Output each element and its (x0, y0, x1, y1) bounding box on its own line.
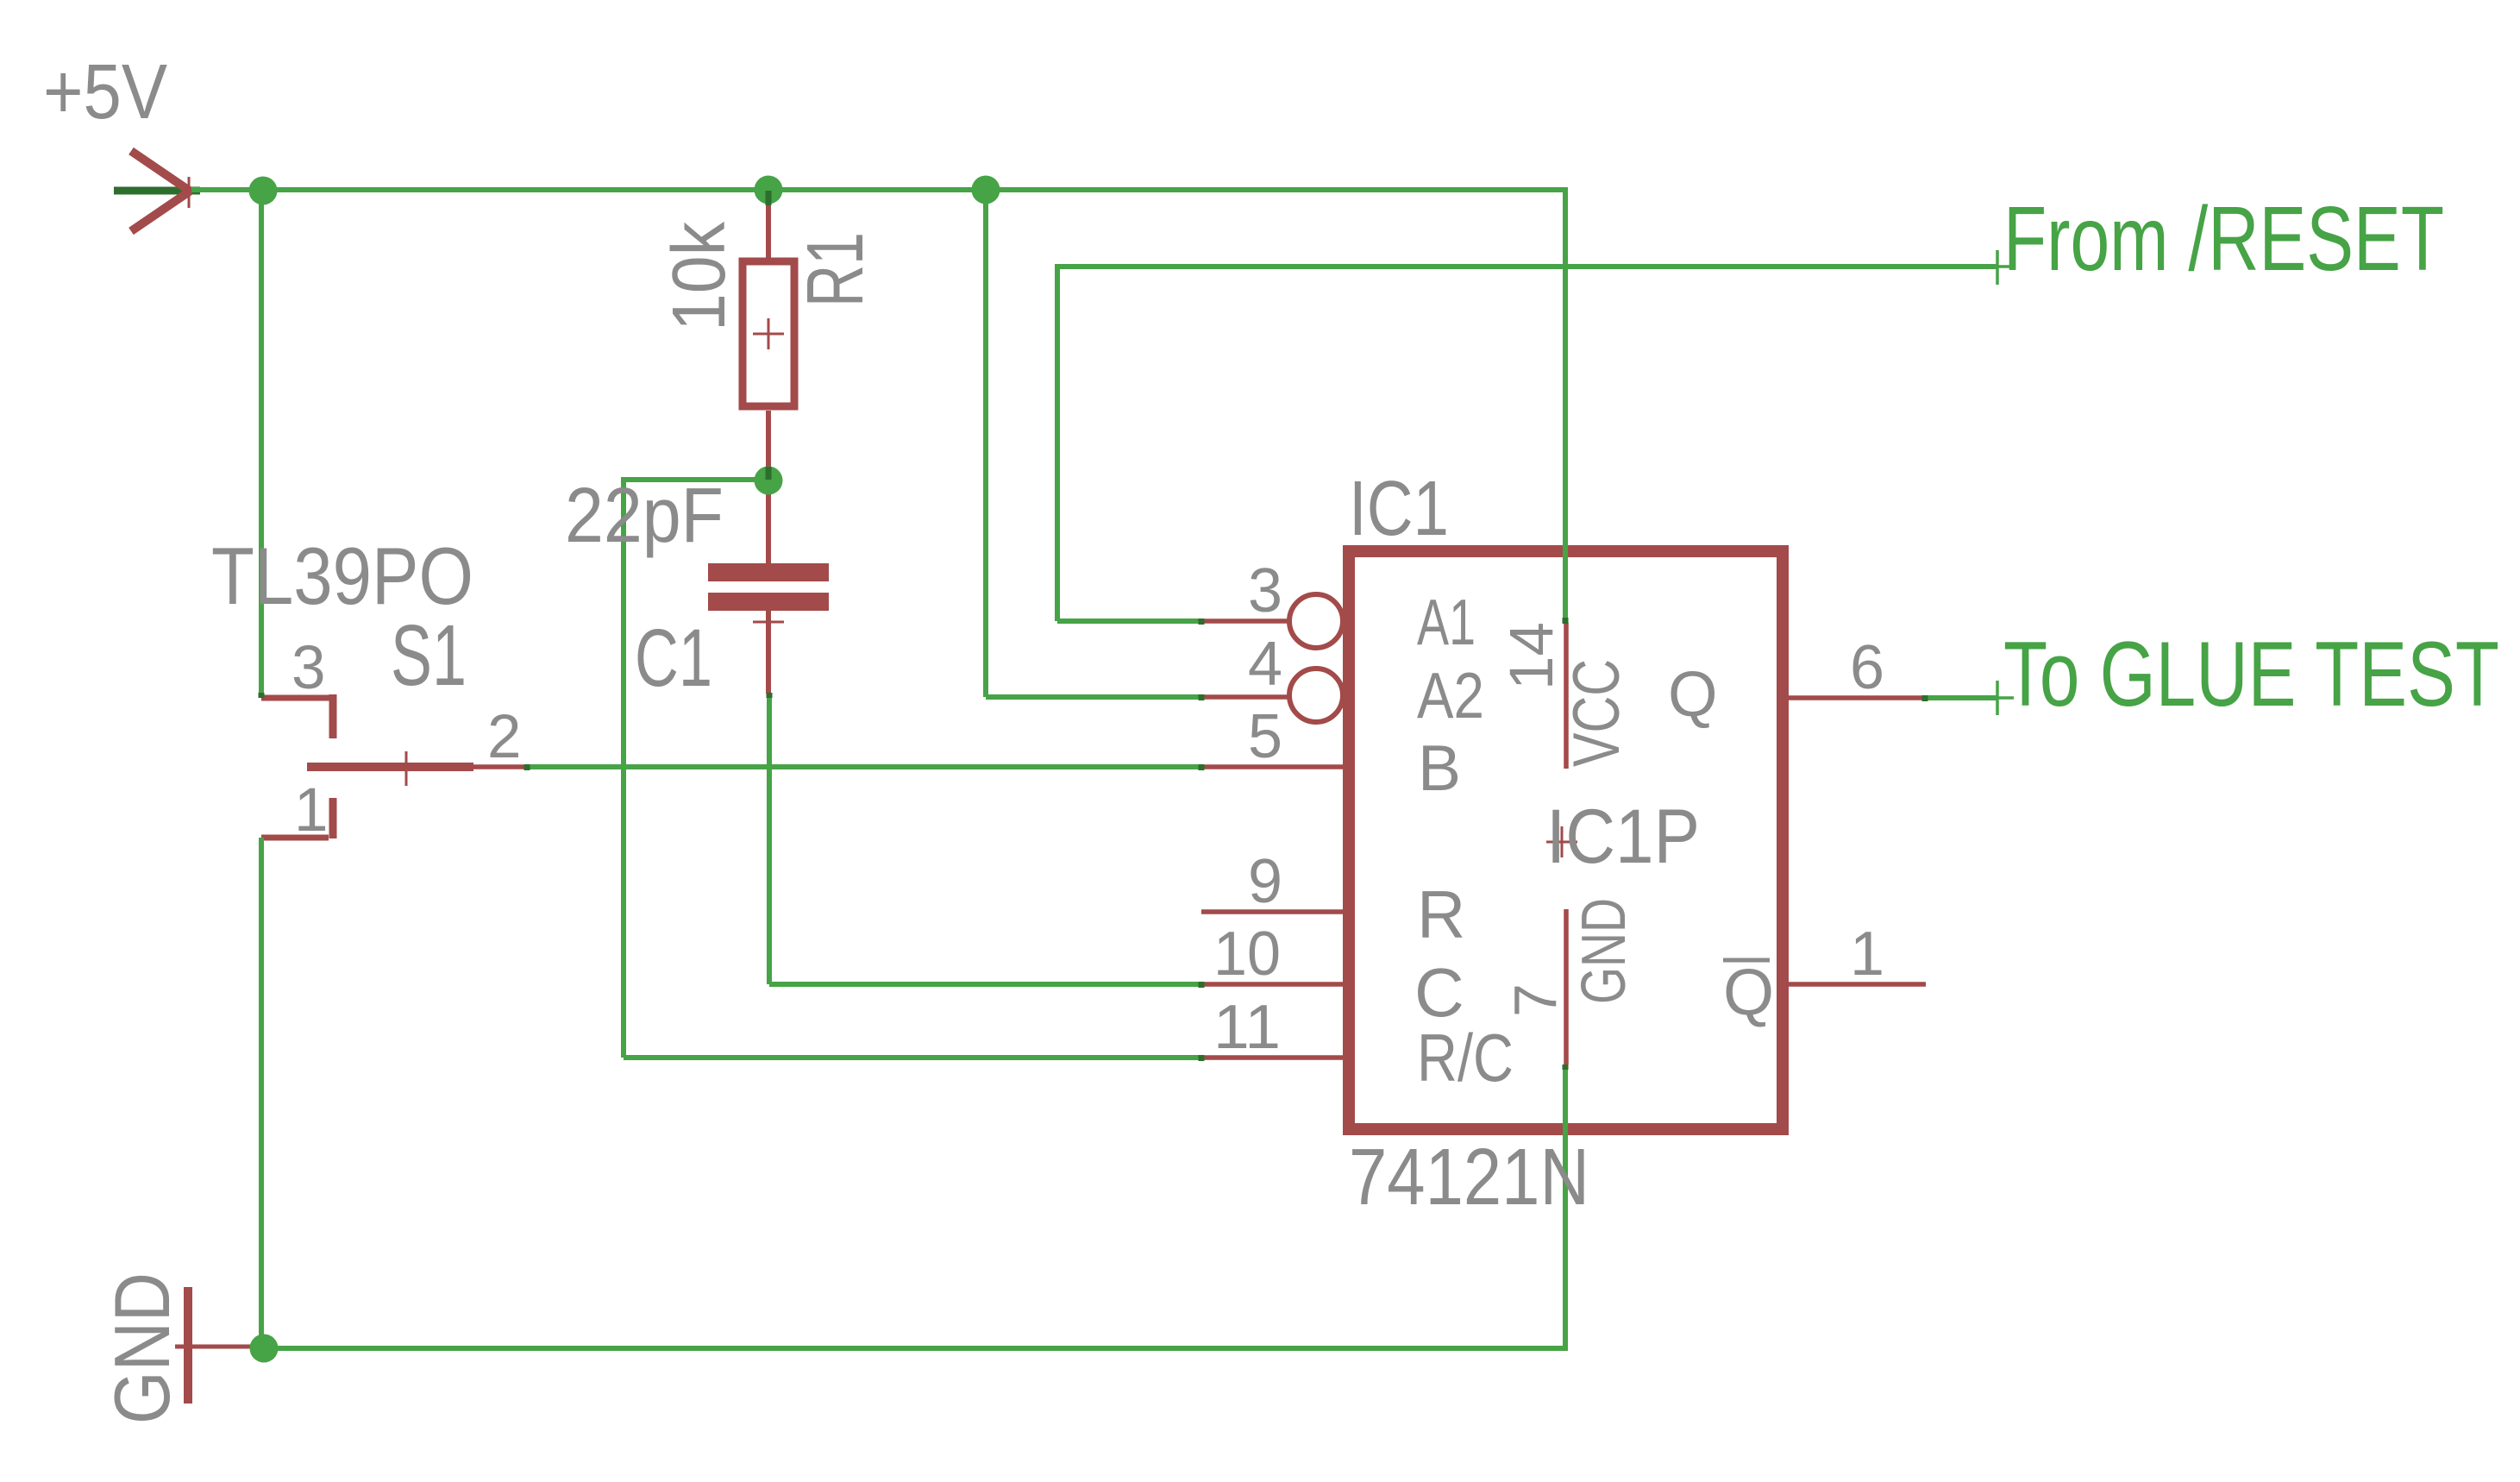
svg-text:11: 11 (1213, 993, 1281, 1062)
svg-text:10k: 10k (657, 222, 741, 331)
svg-text:1: 1 (294, 776, 329, 845)
svg-text:6: 6 (1850, 633, 1884, 702)
svg-text:22pF: 22pF (565, 473, 724, 559)
svg-text:A2: A2 (1417, 659, 1484, 732)
svg-text:9: 9 (1248, 847, 1282, 916)
svg-text:74121N: 74121N (1349, 1132, 1589, 1221)
svg-text:5: 5 (1248, 702, 1282, 771)
svg-text:Q: Q (1668, 658, 1718, 730)
svg-text:From /RESET: From /RESET (2003, 188, 2444, 290)
svg-text:To GLUE TEST: To GLUE TEST (2003, 622, 2499, 725)
svg-text:IC1P: IC1P (1546, 793, 1700, 879)
svg-text:+5V: +5V (43, 49, 167, 135)
svg-text:R: R (1417, 876, 1465, 952)
svg-text:3: 3 (291, 634, 326, 702)
svg-text:IC1: IC1 (1349, 466, 1449, 552)
svg-text:GND: GND (99, 1272, 186, 1424)
svg-text:4: 4 (1248, 630, 1282, 699)
svg-text:7: 7 (1501, 983, 1569, 1017)
svg-text:S1: S1 (391, 607, 467, 704)
svg-text:GND: GND (1570, 898, 1639, 1004)
svg-text:3: 3 (1248, 556, 1282, 625)
svg-text:R1: R1 (790, 232, 880, 307)
svg-text:C1: C1 (635, 612, 712, 704)
svg-text:14: 14 (1498, 622, 1566, 690)
svg-text:R/C: R/C (1417, 1020, 1514, 1096)
svg-text:2: 2 (487, 703, 522, 771)
svg-text:A1: A1 (1417, 586, 1476, 658)
svg-text:10: 10 (1213, 920, 1281, 989)
svg-text:B: B (1418, 732, 1461, 804)
svg-text:VCC: VCC (1560, 659, 1633, 767)
svg-text:1: 1 (1850, 920, 1884, 989)
svg-text:Q: Q (1723, 956, 1774, 1029)
